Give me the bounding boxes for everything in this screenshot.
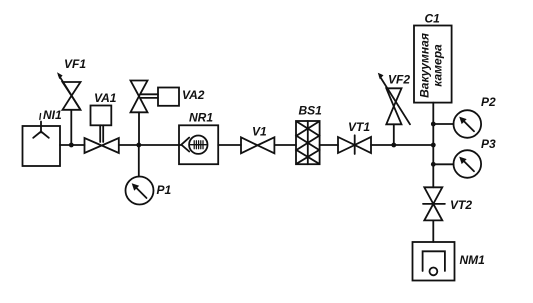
- valve VT1: [338, 135, 371, 154]
- wire VA1 to NR1: [119, 144, 182, 146]
- valve VF1: [57, 72, 81, 145]
- leak element NR1: [179, 125, 218, 164]
- wire VT1 to bus: [371, 144, 433, 146]
- svg-text:VA1: VA1: [94, 91, 117, 105]
- wire NI1 to VA1: [60, 144, 85, 146]
- valve V1: [241, 137, 274, 153]
- node junction main: [431, 143, 436, 148]
- svg-text:NM1: NM1: [460, 253, 486, 267]
- vessel NI1: [23, 114, 61, 167]
- wire bus C1 to VT2: [432, 103, 434, 188]
- trap BS1: [296, 121, 320, 164]
- node junction VF2 stem: [391, 143, 396, 148]
- pump NM1: [413, 242, 455, 281]
- gauge P1: [126, 145, 154, 205]
- chamber C1 text: [417, 33, 444, 98]
- svg-text:BS1: BS1: [299, 104, 323, 118]
- node junction VA2/P1: [136, 143, 141, 148]
- wire NR1 to V1: [218, 144, 241, 146]
- svg-text:NR1: NR1: [189, 111, 213, 125]
- chamber C1: [414, 26, 452, 103]
- svg-text:Вакуумная: Вакуумная: [417, 33, 431, 98]
- valve VF2: [378, 73, 410, 145]
- svg-text:VT2: VT2: [450, 198, 472, 212]
- node junction P2: [431, 122, 436, 127]
- node junction VF1 stem: [69, 143, 74, 148]
- svg-text:VT1: VT1: [348, 120, 370, 134]
- svg-text:VF2: VF2: [388, 73, 410, 87]
- svg-text:NI1: NI1: [43, 108, 62, 122]
- svg-text:P1: P1: [157, 183, 172, 197]
- svg-text:камера: камера: [430, 44, 444, 87]
- node junction P3: [431, 162, 436, 167]
- valve VT2: [423, 187, 445, 220]
- gauge P2: [433, 110, 481, 138]
- svg-text:P3: P3: [481, 137, 496, 151]
- valve VA2 (electromagnetic): [131, 81, 180, 146]
- svg-text:P2: P2: [481, 95, 496, 109]
- svg-text:V1: V1: [252, 125, 267, 139]
- wire V1 to BS1: [274, 144, 296, 146]
- svg-text:C1: C1: [425, 12, 441, 26]
- wire BS1 to VT1: [320, 144, 338, 146]
- valve VA1 (electromagnetic): [85, 106, 119, 154]
- gauge P3: [433, 150, 481, 178]
- wire VT2 to NM1: [432, 220, 434, 242]
- svg-text:VA2: VA2: [182, 88, 205, 102]
- svg-text:VF1: VF1: [64, 57, 86, 71]
